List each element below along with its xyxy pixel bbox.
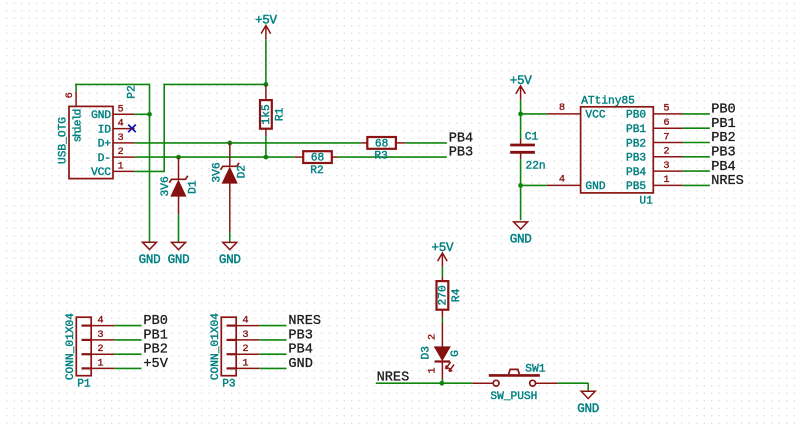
svg-text:6: 6 [64,92,76,98]
svg-text:PB0: PB0 [626,110,646,122]
svg-text:4: 4 [242,315,248,327]
svg-text:1k5: 1k5 [261,104,273,124]
svg-text:3: 3 [242,329,248,341]
svg-text:PB3: PB3 [449,146,473,161]
svg-text:R4: R4 [451,288,463,302]
svg-text:PB5: PB5 [626,181,646,193]
svg-text:GND: GND [91,110,111,122]
svg-text:SW_PUSH: SW_PUSH [490,391,537,403]
svg-text:2: 2 [663,146,669,158]
svg-text:P3: P3 [222,378,235,390]
svg-text:GND: GND [219,253,241,267]
svg-text:D+: D+ [98,139,112,151]
svg-text:D-: D- [98,153,111,165]
svg-text:PB4: PB4 [288,343,312,358]
svg-text:PB2: PB2 [143,343,167,358]
svg-text:2: 2 [427,334,439,340]
svg-text:NRES: NRES [711,174,744,189]
svg-text:1: 1 [97,357,103,369]
svg-text:D3: D3 [420,346,432,359]
svg-text:D1: D1 [187,180,199,194]
svg-text:ATtiny85: ATtiny85 [581,95,635,107]
svg-text:1: 1 [118,160,124,172]
svg-text:D2: D2 [237,165,249,178]
svg-text:68: 68 [311,153,324,165]
svg-text:GND: GND [288,357,312,372]
svg-text:VCC: VCC [585,110,605,122]
svg-text:4: 4 [97,315,103,327]
svg-text:3V6: 3V6 [160,176,172,196]
svg-text:G: G [450,350,462,357]
svg-text:1: 1 [427,367,439,373]
svg-text:5: 5 [118,103,124,115]
svg-text:+5V: +5V [143,357,168,372]
svg-text:USB_OTG: USB_OTG [58,117,70,164]
svg-text:GND: GND [585,181,605,193]
svg-text:270: 270 [438,285,450,305]
svg-text:CONN_01X04: CONN_01X04 [65,313,77,380]
svg-text:PB1: PB1 [626,124,646,136]
svg-text:R1: R1 [275,107,287,121]
svg-text:4: 4 [559,173,565,185]
svg-text:PB0: PB0 [711,103,735,118]
svg-text:ID: ID [98,124,112,136]
svg-text:PB2: PB2 [626,138,646,150]
svg-text:PB3: PB3 [626,153,646,165]
svg-text:P1: P1 [77,378,91,390]
svg-text:NRES: NRES [377,371,410,386]
svg-text:R3: R3 [374,151,387,163]
svg-text:3V6: 3V6 [211,162,223,182]
svg-text:PB1: PB1 [711,117,735,132]
svg-text:3: 3 [97,329,103,341]
svg-text:2: 2 [118,146,124,158]
svg-text:GND: GND [168,253,190,267]
svg-text:GND: GND [577,402,599,416]
svg-text:2: 2 [97,343,103,355]
svg-text:6: 6 [663,117,669,129]
svg-text:shield: shield [73,109,85,142]
svg-text:1: 1 [663,174,669,186]
svg-text:8: 8 [559,102,565,114]
svg-text:R2: R2 [310,165,323,177]
svg-text:5: 5 [663,103,669,115]
svg-text:68: 68 [375,138,388,150]
svg-text:7: 7 [663,131,669,143]
svg-text:PB4: PB4 [711,160,735,175]
svg-text:1: 1 [242,357,248,369]
svg-text:PB0: PB0 [143,314,167,329]
svg-text:U1: U1 [639,195,653,207]
svg-text:PB4: PB4 [449,131,473,146]
svg-text:PB3: PB3 [711,146,735,161]
svg-text:PB4: PB4 [626,167,646,179]
svg-text:PB3: PB3 [288,328,312,343]
svg-text:CONN_01X04: CONN_01X04 [210,313,222,380]
svg-text:GND: GND [139,253,161,267]
svg-text:22n: 22n [526,160,546,172]
svg-text:SW1: SW1 [525,363,545,375]
svg-text:2: 2 [242,343,248,355]
svg-text:C1: C1 [525,132,539,144]
svg-text:3: 3 [663,160,669,172]
svg-text:4: 4 [118,118,124,130]
svg-text:3: 3 [118,132,124,144]
svg-text:VCC: VCC [91,167,111,179]
svg-text:PB2: PB2 [711,131,735,146]
svg-text:GND: GND [510,233,532,247]
svg-text:P2: P2 [127,85,139,98]
svg-text:PB1: PB1 [143,328,167,343]
svg-text:NRES: NRES [288,314,321,329]
